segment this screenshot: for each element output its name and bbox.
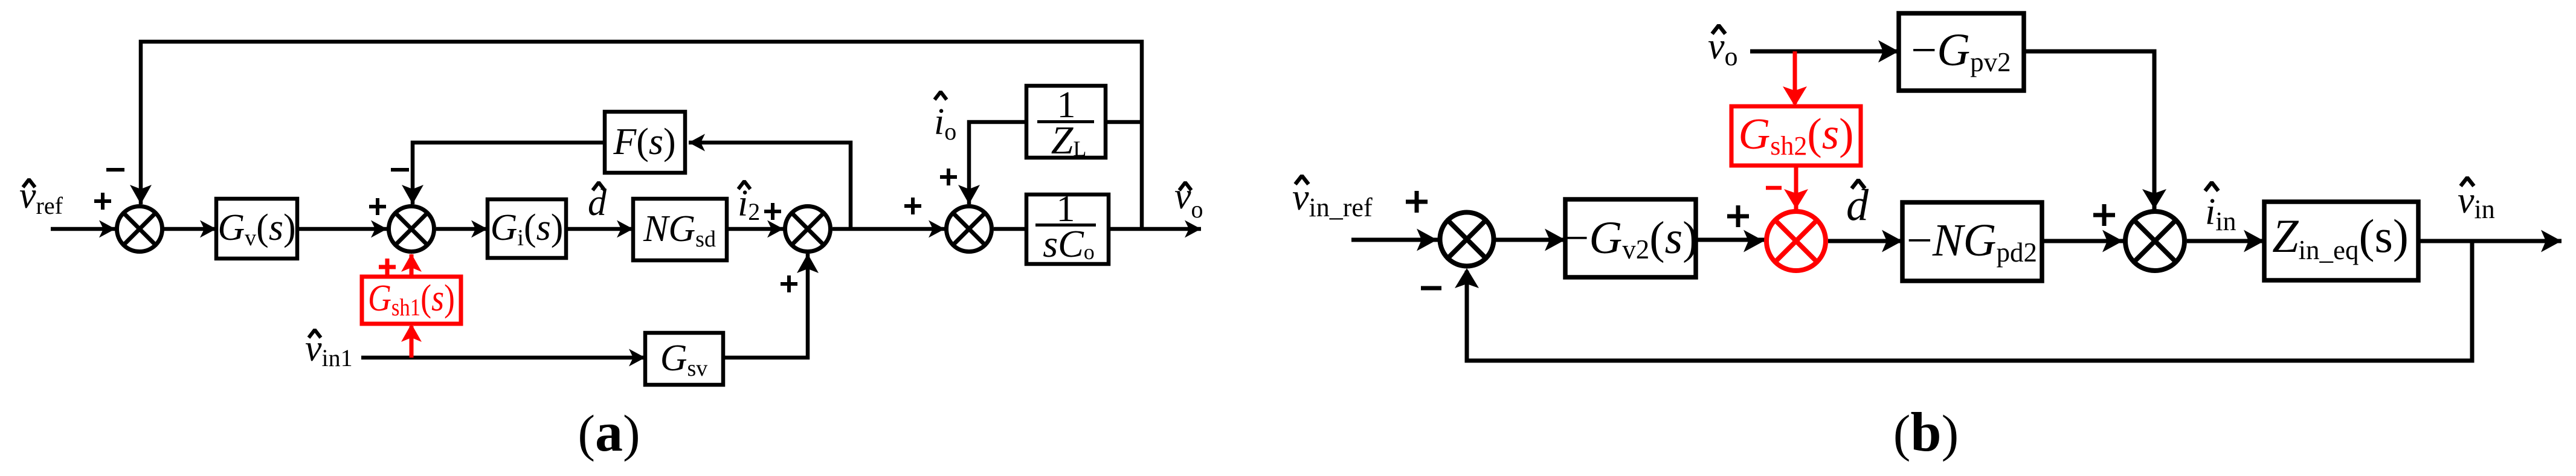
svg-text:(a): (a) [578,401,640,463]
svg-text:(b): (b) [1893,401,1959,463]
svg-text:Gv​(s): Gv​(s) [217,207,295,251]
svg-text:F(s): F(s) [613,121,675,162]
svg-text:d: d [1846,181,1869,230]
svg-text:Gi​(s): Gi​(s) [491,207,564,251]
